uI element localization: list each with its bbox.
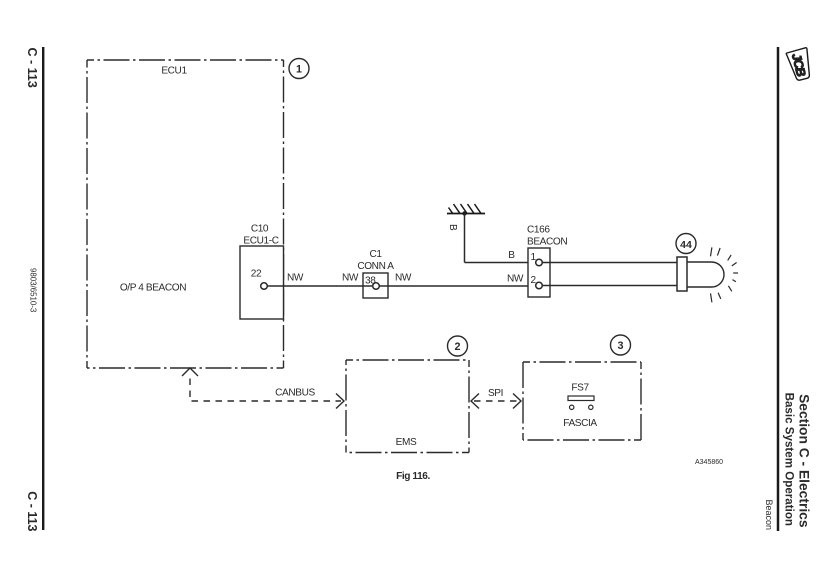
svg-text:1: 1 [296,63,302,75]
svg-text:FS7: FS7 [571,383,589,394]
svg-text:ECU1-C: ECU1-C [243,236,278,247]
svg-text:9803/6510-3: 9803/6510-3 [29,268,38,313]
svg-text:CONN A: CONN A [357,261,394,272]
svg-text:Beacon: Beacon [764,499,774,530]
svg-text:EMS: EMS [396,437,417,448]
svg-text:C166: C166 [527,225,550,236]
svg-text:ECU1: ECU1 [161,66,187,77]
svg-text:NW: NW [507,274,524,285]
svg-text:O/P 4 BEACON: O/P 4 BEACON [120,283,186,294]
svg-text:NW: NW [395,273,412,284]
svg-text:22: 22 [251,269,262,280]
svg-text:BEACON: BEACON [527,237,567,248]
svg-text:C1: C1 [369,249,382,260]
svg-text:B: B [447,224,458,231]
svg-text:Section C - Electrics: Section C - Electrics [797,394,812,528]
svg-text:Fig 116.: Fig 116. [396,471,430,482]
svg-text:2: 2 [454,341,460,353]
svg-text:CANBUS: CANBUS [275,388,315,399]
svg-text:44: 44 [680,239,692,251]
svg-text:SPI: SPI [488,388,503,399]
svg-text:C10: C10 [251,224,269,235]
svg-text:NW: NW [342,273,359,284]
svg-text:A345860: A345860 [695,459,723,466]
svg-text:NW: NW [287,273,304,284]
svg-text:3: 3 [617,340,623,352]
svg-text:C - 113: C - 113 [25,491,39,531]
svg-text:B: B [508,250,515,261]
svg-text:FASCIA: FASCIA [563,418,597,429]
svg-text:C - 113: C - 113 [25,48,39,88]
svg-text:Basic System Operation: Basic System Operation [783,393,796,526]
